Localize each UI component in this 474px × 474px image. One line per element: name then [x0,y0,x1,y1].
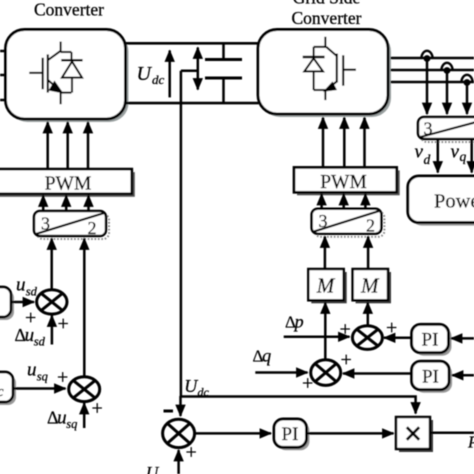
label U_dc ref (cropped at bottom) [146,463,160,474]
arrow: T1 to PWM1 a [42,196,45,212]
M block 2 [353,269,391,303]
wire: grid phase line c [391,81,474,84]
label U_dc (DC link) [137,63,165,87]
summing junction SA [37,290,67,314]
arrow: Delta q into junction SQ [255,371,307,374]
svg-text:U: U [146,463,160,474]
arrow: SU output to PI3 [195,432,271,435]
svg-text:+: + [58,313,69,335]
title: machine side Converter [34,0,104,20]
arrow: v_d to power block [437,139,440,173]
summing junction SP [352,326,382,350]
sign + (SA left input) [25,307,36,329]
svg-text:+: + [386,317,397,339]
arrow: U_dc voltage arrow [168,51,171,98]
arrow: T2 to PWM2 b [342,194,345,209]
arrow: T1 to PWM1 b [65,196,68,212]
sign + (SU bottom input) [186,442,197,464]
svg-text:p: p [293,312,304,332]
wire: rotor stub a [0,50,6,53]
svg-text:3: 3 [41,214,50,234]
arrow: Delta u_sq into SB [83,403,86,428]
svg-text:U: U [184,376,198,396]
sign - (SU top input) [164,410,174,413]
multiplier block X [396,417,433,452]
arrow: junction SQ output to M1 [324,303,327,361]
M block 1 [308,269,346,303]
label Delta q [253,346,272,366]
svg-text:sq: sq [66,417,77,431]
sign + (SP right input) [386,317,397,339]
svg-text:PI: PI [282,424,299,445]
arrow: U_dc into summing junction SU [179,396,182,416]
svg-text:PI: PI [422,330,439,351]
svg-text:q: q [460,149,467,164]
svg-text:Converter: Converter [34,0,104,20]
label u_sd [16,275,38,299]
svg-text:q: q [262,346,271,366]
svg-text:c: c [0,384,4,400]
arrow: S1 to junction SA [11,301,34,304]
PI controller box PI3 [274,419,310,450]
title: Grid Side Converter [292,0,362,28]
wire: rotor stub b [0,74,6,77]
svg-text:u: u [25,325,34,346]
arrow: PWM2 to converter gate c [363,118,366,168]
3/2 transform block T2 [312,209,385,237]
svg-text:v: v [451,142,460,163]
wire: U_dc sense branch [181,71,198,397]
3/2 transform block T1 [34,211,109,239]
arrow: S2 to junction SB [13,387,65,390]
svg-text:3: 3 [319,211,328,231]
label P ref (cropped at right edge) [467,433,474,452]
arrow: PWM1 to converter gate a [46,122,49,169]
arrow: tap b to T3 [446,70,449,114]
3/2 transform block T3 [418,117,474,142]
sign + (SA bottom input) [58,313,69,335]
source box S2 (left edge, u_sq) [0,372,16,405]
sign + (SP left input) [340,319,351,341]
svg-text:3: 3 [424,119,433,139]
measurement tap b [441,63,452,74]
summing junction SQ [311,360,341,386]
arrow: T2 to PWM2 a [320,194,323,209]
svg-text:u: u [16,275,26,296]
svg-text:dc: dc [198,385,210,399]
svg-text:U: U [137,63,153,85]
arrow: T2 to PWM2 c [364,194,367,209]
wire: multiplier output to right edge [430,432,474,435]
PI controller box PI2 [412,361,453,393]
svg-text:Power: Power [434,191,474,213]
svg-text:M: M [360,274,380,298]
capacitor C (DC link) [205,43,242,103]
svg-text:PWM: PWM [45,174,92,195]
arrow: junction SB output to T1 [83,239,86,378]
arrow: PI2 output to SQ [343,372,412,375]
svg-text:u: u [27,360,37,381]
arrow: input into PI1 from right edge [451,337,474,340]
arrow: PWM2 to converter gate b [343,118,346,168]
arrow: into multiplier top [414,397,417,414]
sign + (SB bottom input) [92,398,103,420]
arrow: PI3 output to multiplier [307,432,394,435]
IGBT with antiparallel diode inside U2 (mirrored) [303,37,356,100]
power calculation box [408,176,474,226]
arrow: input into PI2 from right edge [452,374,474,377]
svg-text:sd: sd [26,285,38,299]
arrow: Delta u_sd into SA [51,316,54,345]
svg-text:sd: sd [34,335,46,349]
wire: rotor stub c [0,99,6,102]
label Delta p [285,312,304,332]
arrow: junction SP output to M2 [367,303,370,327]
source box S1 (left edge, u_sd) [0,287,14,320]
svg-text:Converter: Converter [292,8,362,28]
arrow: T1 to PWM1 c [87,196,90,212]
svg-text:P: P [467,433,474,452]
svg-text:2: 2 [366,216,375,236]
label v_q [451,142,467,165]
svg-text:+: + [340,319,351,341]
arrow: DC link current double arrow [197,48,200,90]
arrow: v_q to power block [470,139,473,173]
PWM box 2 (grid side) [294,167,400,195]
svg-text:u: u [57,408,67,429]
summing junction SB [69,377,100,402]
svg-text:+: + [92,398,103,420]
svg-text:v: v [415,142,424,163]
sign + (SQ left input) [302,373,313,395]
arrow: junction SA output to T1 [50,239,53,291]
label Delta u_sq [47,408,77,432]
measurement tap a [421,51,432,62]
label Delta u_sd [15,325,46,349]
svg-text:dc: dc [152,72,165,87]
label U_dc (sense, lower) [184,376,209,399]
arrow: tap c to T3 [466,82,469,114]
sign + (SQ right input) [341,349,352,371]
wire: DC link bottom rail [125,102,259,105]
svg-text:d: d [424,152,431,167]
arrow: PWM1 to converter gate c [87,122,90,169]
wire: U_dc feed to multiplier [181,395,416,398]
arrow: PWM2 to converter gate a [322,118,325,168]
sign + (SB left input) [57,367,68,389]
svg-text:+: + [186,442,197,464]
svg-text:Grid Side: Grid Side [293,0,361,8]
wire: grid phase line b [391,69,474,72]
arrow: PI1 output to SP [384,337,412,340]
arrow: M1 output to T2 [324,237,327,269]
svg-text:2: 2 [88,218,97,238]
svg-text:+: + [341,349,352,371]
svg-text:M: M [316,274,336,298]
machine side converter box U1 [6,30,129,123]
svg-text:PWM: PWM [320,172,367,193]
arrow: PWM1 to converter gate b [66,122,69,169]
arrow: U_dc ref into SU from bottom [177,450,180,474]
arrow: tap a to T3 [426,58,429,114]
wire: DC link top rail [125,42,259,45]
PI controller box PI1 [412,324,452,355]
summing junction SU (U_dc) [163,419,195,447]
label u_sq [27,360,48,384]
arrow: Delta p into junction SP [284,336,350,339]
grid side converter box U2 [258,30,391,118]
measurement tap c [461,75,472,86]
svg-text:sq: sq [37,370,48,384]
svg-text:PI: PI [422,367,439,388]
label v_d [415,142,431,168]
arrow: M2 output to T2 [367,237,370,269]
svg-text:+: + [57,367,68,389]
PWM box 1 (machine side) [0,169,135,197]
wire: grid phase line a [391,57,474,60]
IGBT with antiparallel diode inside U1 [29,42,82,105]
